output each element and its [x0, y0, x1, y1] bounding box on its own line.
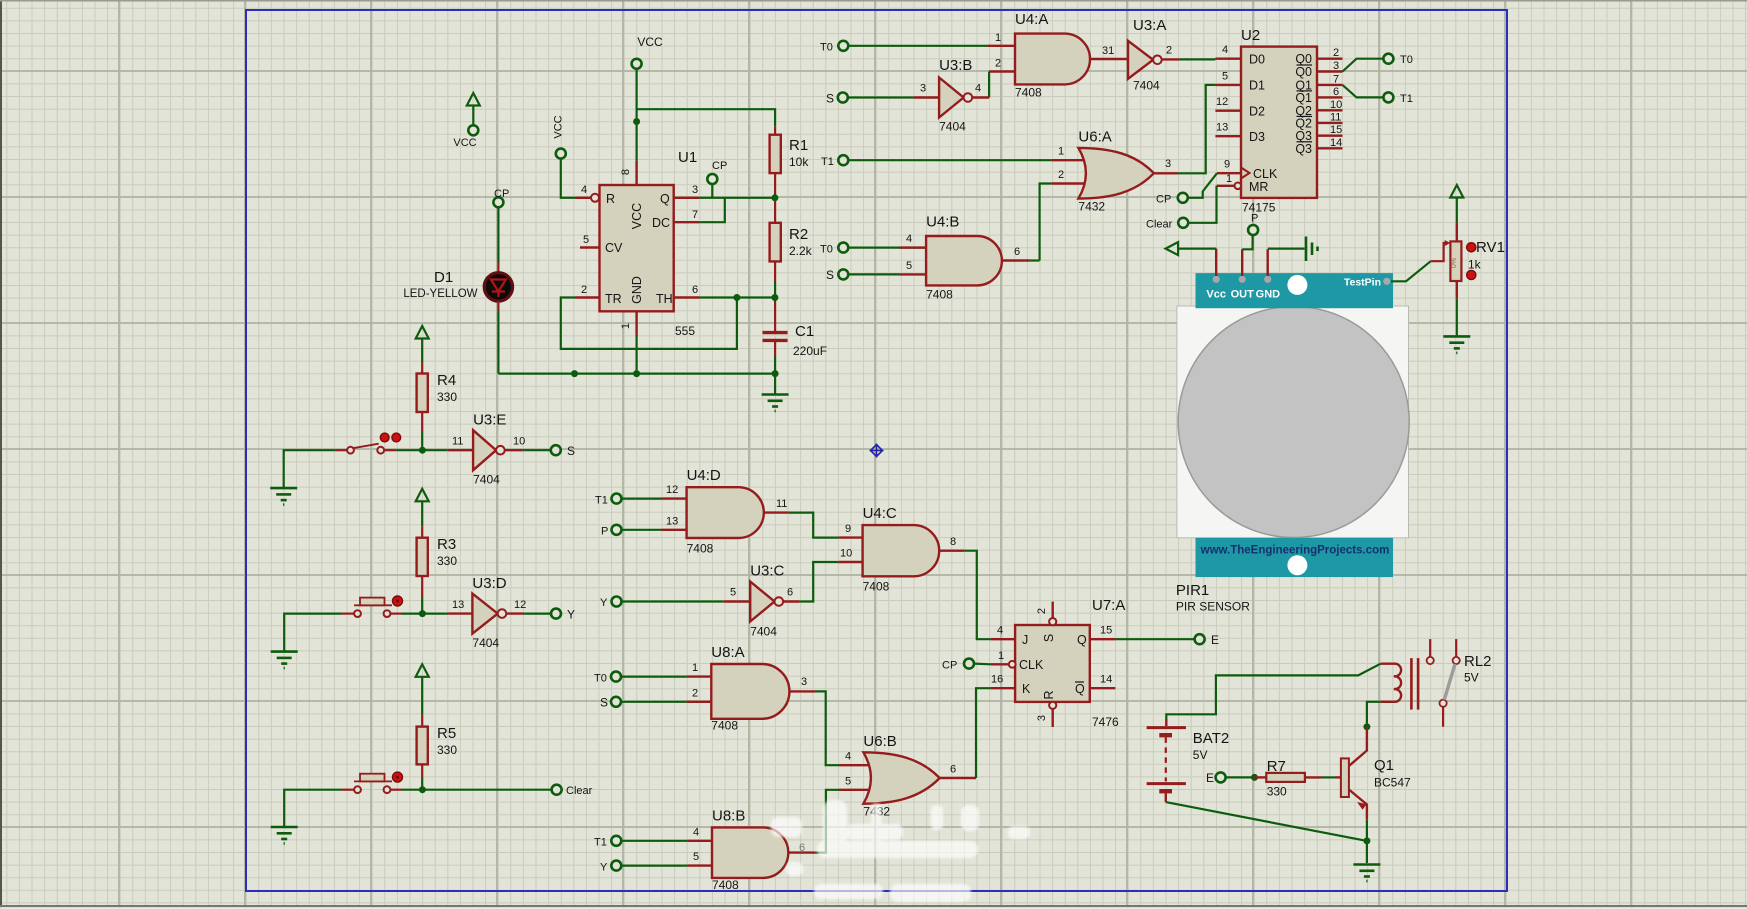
- svg-text:2: 2: [581, 284, 587, 296]
- power symbol VCC above R4: [416, 326, 429, 339]
- svg-text:14: 14: [1100, 674, 1112, 686]
- svg-text:8: 8: [950, 536, 956, 548]
- svg-text:T0: T0: [820, 243, 833, 255]
- pin U2 pin5 D1: [1215, 84, 1241, 86]
- wire row2 gnd to button: [284, 614, 341, 652]
- terminal P (under U2): [1248, 225, 1258, 235]
- pin U7 pin3 R: [1051, 709, 1053, 727]
- schematic sheet border frame: [246, 10, 1507, 891]
- svg-text:VCC: VCC: [553, 115, 565, 138]
- svg-text:VCC: VCC: [453, 137, 476, 149]
- wire C1 bottom lead: [774, 342, 776, 356]
- pin U3:D pin12 stub: [506, 612, 524, 614]
- svg-text:12: 12: [1216, 96, 1228, 108]
- NOT gate U3:C: [750, 563, 784, 639]
- pin U1 pin1: [635, 311, 637, 336]
- svg-text:R2: R2: [789, 226, 808, 243]
- svg-text:S: S: [1042, 634, 1056, 642]
- svg-text:16: 16: [991, 674, 1003, 686]
- svg-text:7408: 7408: [1015, 86, 1042, 100]
- IC U2 74175 quad D flip-flop: [1235, 27, 1318, 215]
- svg-text:U1: U1: [678, 149, 697, 166]
- wire row1 btn to junction: [396, 449, 448, 451]
- svg-text:1: 1: [1058, 146, 1064, 158]
- svg-text:T0: T0: [1400, 54, 1413, 66]
- NOT gate U3:A: [1128, 17, 1166, 93]
- svg-text:1: 1: [995, 32, 1001, 44]
- ground under RV1: [1443, 336, 1470, 353]
- window edge bottom: [0, 905, 1747, 907]
- wire LED bottom lead: [497, 301, 499, 311]
- svg-text:C1: C1: [795, 323, 814, 340]
- wire row3 gnd to button: [284, 790, 341, 827]
- push button switch row3 button: [354, 772, 403, 793]
- svg-text:Y: Y: [567, 608, 575, 622]
- U2 output labels: [1295, 52, 1312, 156]
- push button switch row1 button: [347, 433, 401, 454]
- svg-text:6: 6: [799, 842, 805, 854]
- svg-text:D0: D0: [1249, 53, 1265, 67]
- terminal T1 (to U6:A): [838, 155, 848, 165]
- wire R1 top lead: [774, 126, 776, 134]
- svg-text:13: 13: [452, 599, 464, 611]
- wire Q to R1/R2 junction: [700, 197, 775, 199]
- pin U4:B pin5 stub: [899, 273, 926, 275]
- svg-text:10: 10: [513, 436, 525, 448]
- svg-text:7408: 7408: [687, 542, 714, 556]
- svg-text:T1: T1: [594, 837, 607, 849]
- wire R2 top lead: [774, 201, 776, 223]
- wire GND to right-facing ground: [1268, 248, 1305, 250]
- wire Y to U3:C pin5: [622, 600, 724, 602]
- junction TH/TR loop node: [733, 294, 740, 301]
- wire ground bus: [498, 373, 775, 375]
- svg-text:Q: Q: [1077, 633, 1087, 647]
- svg-text:BAT2: BAT2: [1193, 730, 1229, 747]
- pin U2 pin13 D3: [1215, 135, 1241, 137]
- svg-text:TH: TH: [656, 292, 673, 306]
- svg-text:555: 555: [675, 324, 695, 338]
- svg-text:MR: MR: [1249, 180, 1268, 194]
- resistor R5: [417, 725, 458, 764]
- pin U2 pin12 D2: [1215, 109, 1241, 111]
- svg-text:10: 10: [840, 548, 852, 560]
- wire U3:C out to U4:C pin10: [800, 562, 839, 602]
- pin U7 pin16 K: [991, 687, 1016, 689]
- wire VCC arrow to circle: [472, 106, 474, 126]
- terminal CP (above D1): [493, 197, 503, 207]
- NOT gate U3:E: [473, 412, 506, 487]
- svg-text:Clear: Clear: [1146, 219, 1173, 231]
- pin U8:B pin4 stub: [687, 840, 712, 842]
- svg-text:U3:E: U3:E: [473, 412, 506, 429]
- pin U2 pin10: [1317, 109, 1343, 111]
- pin U4:D pin12 stub: [662, 497, 687, 499]
- wire R7 to Q1 base: [1321, 776, 1336, 778]
- power symbol VCC arrow top-left: [467, 93, 480, 106]
- pin U1 pin6 stub: [674, 296, 700, 298]
- svg-text:R7: R7: [1267, 758, 1286, 775]
- pin U3:E pin10 stub: [505, 449, 523, 451]
- svg-text:PIR SENSOR: PIR SENSOR: [1176, 600, 1250, 614]
- wire CP to LED: [497, 207, 499, 262]
- svg-text:8: 8: [620, 169, 632, 175]
- pin U4:D pin11 out: [764, 511, 789, 513]
- svg-text:S: S: [600, 696, 608, 710]
- wire Y to U8:B pin5: [621, 864, 687, 866]
- wire T1 to U6:A pin1: [848, 159, 1051, 161]
- wire R4 bottom lead: [421, 412, 423, 432]
- terminal Y (U8:B): [611, 861, 621, 871]
- power symbol VCC above RV1: [1450, 185, 1463, 198]
- svg-text:E: E: [1206, 771, 1214, 785]
- svg-text:P: P: [1251, 213, 1258, 225]
- pin U6:A pin3 out: [1154, 172, 1178, 174]
- terminal Clear (row3): [552, 785, 562, 795]
- ground row1 left: [270, 488, 297, 505]
- NOT gate U3:B: [939, 57, 972, 134]
- wire coil bottom to Q1 collector: [1367, 702, 1381, 724]
- svg-text:14: 14: [1330, 137, 1342, 149]
- svg-text:2: 2: [1333, 47, 1339, 59]
- svg-text:TR: TR: [605, 292, 622, 306]
- svg-text:U6:A: U6:A: [1078, 129, 1111, 146]
- svg-text:4: 4: [845, 751, 851, 763]
- svg-text:3: 3: [1333, 60, 1339, 72]
- junction E/R7 node: [1251, 774, 1258, 781]
- wire S to U3:B pin3: [848, 96, 914, 98]
- junction bus dot c: [772, 370, 779, 377]
- wire R3 bottom green: [421, 598, 423, 614]
- svg-text:1: 1: [998, 650, 1004, 662]
- svg-text:BC547: BC547: [1374, 776, 1411, 790]
- svg-text:2: 2: [995, 58, 1001, 70]
- wire U4:B out to U6:A pin2: [1040, 184, 1052, 261]
- pin U8:A pin3 out: [789, 690, 815, 692]
- svg-text:6: 6: [1333, 86, 1339, 98]
- svg-text:T1: T1: [821, 156, 834, 168]
- svg-text:CV: CV: [605, 241, 623, 255]
- pin U4:A pin3 out: [1090, 58, 1129, 60]
- wire row3 btn lead R: [391, 789, 403, 791]
- wire R3 top lead: [421, 526, 423, 538]
- pin U8:B pin6 out: [788, 851, 815, 853]
- power arrow left (PIR Vcc): [1166, 242, 1217, 255]
- svg-text:7476: 7476: [1092, 715, 1119, 729]
- pin U7 pin14 Qbar: [1090, 687, 1116, 689]
- pin U3:C pin5 stub: [724, 600, 750, 602]
- wire VCC reset to pin4: [561, 159, 576, 198]
- svg-text:7404: 7404: [472, 636, 499, 650]
- svg-text:7404: 7404: [1133, 79, 1160, 93]
- svg-text:10: 10: [1330, 99, 1342, 111]
- NOT gate U3:D: [472, 575, 506, 650]
- pin U4:A pin2 stub: [989, 70, 1015, 72]
- wire T1 to U4:D pin12: [622, 498, 662, 500]
- junction collector node: [1363, 723, 1370, 730]
- terminal T1 (U2 out): [1383, 92, 1393, 102]
- svg-text:U4:D: U4:D: [687, 467, 721, 484]
- junction R3/button node: [419, 610, 426, 617]
- svg-text:R: R: [1042, 690, 1056, 699]
- terminal T0 (to U4:A): [838, 41, 848, 51]
- resistor R2: [770, 223, 813, 262]
- svg-text:3: 3: [692, 184, 698, 196]
- svg-text:R4: R4: [437, 372, 456, 389]
- junction bus dot a: [571, 370, 578, 377]
- pin U2 pin9 CLK: [1217, 172, 1241, 174]
- terminal T1 (U4:D): [612, 494, 622, 504]
- svg-text:7408: 7408: [926, 288, 953, 302]
- svg-text:VCC: VCC: [630, 203, 644, 229]
- svg-text:4: 4: [581, 184, 587, 196]
- pin U2 pin4 D0: [1215, 58, 1241, 60]
- svg-text:Clear: Clear: [566, 785, 593, 797]
- svg-text:DC: DC: [652, 216, 670, 230]
- svg-text:74175: 74175: [1242, 201, 1276, 215]
- pin U8:B pin5 stub: [687, 864, 712, 866]
- svg-text:2: 2: [692, 687, 698, 699]
- wire U3:E out to S: [523, 449, 551, 451]
- svg-text:K: K: [1022, 682, 1031, 696]
- pin U2 pin11: [1317, 122, 1343, 124]
- terminal T1 (U8:B): [611, 836, 621, 846]
- junction R4/button node: [419, 447, 426, 454]
- terminal E (base drive): [1216, 772, 1226, 782]
- svg-text:3: 3: [1036, 715, 1048, 721]
- AND gate U4:C: [863, 505, 940, 594]
- svg-text:7: 7: [692, 209, 698, 221]
- ground under C1: [762, 395, 789, 412]
- svg-text:J: J: [1022, 633, 1028, 647]
- wire row1 btn lead L: [335, 449, 347, 451]
- wire LED top lead: [497, 262, 499, 272]
- pin U1 pin4 stub: [576, 197, 591, 199]
- wire T1 to U8:B pin4: [621, 840, 687, 842]
- svg-text:VCC: VCC: [637, 35, 663, 49]
- svg-text:6: 6: [1014, 246, 1020, 258]
- PIR sensor module PIR1: [1176, 273, 1409, 613]
- svg-text:2: 2: [1166, 45, 1172, 57]
- wire row3 to Clear: [402, 789, 552, 791]
- svg-text:330: 330: [437, 743, 457, 757]
- svg-text:D1: D1: [1249, 79, 1265, 93]
- pin U3:E pin11 stub: [448, 449, 473, 451]
- wire VCC branch to R1 top: [637, 109, 776, 126]
- svg-text:4: 4: [906, 233, 912, 245]
- wire RV1 top lead: [1456, 223, 1458, 242]
- IC U1 555 timer: [600, 149, 698, 338]
- pin U7 pin2 S: [1051, 602, 1053, 618]
- svg-text:Y: Y: [600, 597, 608, 609]
- wire R5 bottom lead: [421, 764, 423, 778]
- pin U3:B pin4 out: [972, 96, 989, 98]
- wire R3 bottom lead: [421, 576, 423, 598]
- svg-text:E: E: [1211, 633, 1219, 647]
- pin U4:B pin4 stub: [899, 246, 926, 248]
- svg-text:12: 12: [666, 484, 678, 496]
- wire row3 btn lead L: [341, 789, 354, 791]
- wire T0 to U4:A pin1: [848, 45, 988, 47]
- wire T0 to U8:A pin1: [621, 675, 687, 677]
- svg-text:330: 330: [437, 554, 457, 568]
- svg-text:0%: 0%: [1451, 258, 1458, 268]
- AND gate U8:B: [712, 808, 788, 893]
- svg-text:Q: Q: [1075, 682, 1085, 696]
- svg-text:11: 11: [452, 436, 463, 448]
- svg-text:3: 3: [920, 83, 926, 95]
- pin U3:A pin2 out: [1162, 58, 1180, 60]
- IC U7:A 7476 JK flip-flop: [1009, 597, 1126, 729]
- wire R2 bottom lead: [774, 261, 776, 281]
- svg-text:9: 9: [1224, 159, 1230, 171]
- wire R3 top green: [421, 501, 423, 526]
- wire CP to CLK: [1188, 173, 1217, 198]
- pin U2 pin7: [1317, 84, 1343, 86]
- terminal T0 (U8:A): [611, 672, 621, 682]
- pin U7 pin4 J: [991, 638, 1016, 640]
- svg-text:U3:C: U3:C: [750, 563, 784, 580]
- transistor Q1 BC547: [1336, 727, 1411, 820]
- svg-text:RL2: RL2: [1464, 653, 1492, 670]
- terminal Clear (U2): [1178, 218, 1188, 228]
- svg-text:TestPin: TestPin: [1344, 277, 1381, 289]
- wire C1 top green: [774, 298, 776, 303]
- svg-text:1: 1: [1226, 173, 1232, 185]
- svg-text:LED-YELLOW: LED-YELLOW: [403, 288, 477, 300]
- svg-text:D3: D3: [1249, 130, 1265, 144]
- svg-text:3: 3: [801, 676, 807, 688]
- pin U6:A pin1 stub: [1052, 159, 1092, 161]
- pin U8:A pin2 stub: [687, 701, 712, 703]
- svg-text:5: 5: [693, 851, 699, 863]
- svg-text:31: 31: [1102, 45, 1114, 57]
- wire T0 to U4:B pin4: [848, 247, 926, 249]
- wire U4:D out to U4:C pin9: [789, 513, 839, 538]
- AND gate U8:A: [711, 644, 789, 733]
- svg-text:5V: 5V: [1464, 671, 1479, 685]
- svg-text:7408: 7408: [711, 719, 738, 733]
- svg-text:5: 5: [1222, 71, 1228, 83]
- svg-text:6: 6: [950, 764, 956, 776]
- terminal VCC top-left: [468, 125, 478, 135]
- svg-text:6: 6: [692, 284, 698, 296]
- pin U1 pin8: [635, 161, 637, 185]
- svg-text:D1: D1: [434, 269, 453, 286]
- wire E to R7: [1226, 776, 1255, 778]
- svg-text:CP: CP: [1156, 194, 1171, 206]
- wire Q1 emitter to ground: [1366, 820, 1368, 863]
- svg-text:T1: T1: [1400, 93, 1413, 105]
- wire LED to bus: [497, 311, 499, 374]
- pin U2 pin15: [1317, 134, 1343, 136]
- svg-text:5: 5: [583, 234, 589, 246]
- svg-text:330: 330: [1267, 785, 1287, 799]
- wire R4 top green: [421, 339, 423, 363]
- wire R4 top lead: [421, 363, 423, 374]
- pin U3:D pin13 stub: [448, 612, 472, 614]
- wire RV1 bottom green: [1456, 299, 1458, 337]
- wire row1 gnd to button: [284, 450, 335, 488]
- svg-text:T0: T0: [594, 672, 607, 684]
- svg-text:U4:A: U4:A: [1015, 11, 1048, 28]
- LED D1: [403, 269, 512, 301]
- svg-text:U7:A: U7:A: [1092, 597, 1125, 614]
- svg-text:U4:B: U4:B: [926, 214, 959, 231]
- wire RV1 top green: [1456, 198, 1458, 223]
- wire TR feedback loop: [561, 298, 737, 349]
- svg-text:11: 11: [776, 498, 787, 510]
- svg-text:Q: Q: [660, 192, 670, 206]
- wire U7 Q to E: [1115, 638, 1194, 640]
- wire pin1 to gnd bus: [635, 336, 637, 374]
- resistor R3: [417, 536, 458, 576]
- svg-text:GND: GND: [630, 276, 644, 304]
- svg-text:U3:A: U3:A: [1133, 17, 1166, 34]
- ground row2 left: [271, 652, 298, 669]
- wire BAT2- to emitter node: [1166, 802, 1367, 841]
- svg-text:T0: T0: [820, 42, 833, 54]
- wire S to U8:A pin2: [621, 701, 687, 703]
- svg-text:4: 4: [693, 826, 699, 838]
- junction VCC branch: [633, 118, 640, 125]
- wire CP to U7 CLK: [974, 662, 991, 665]
- svg-text:R: R: [606, 192, 615, 206]
- svg-text:CLK: CLK: [1019, 658, 1044, 672]
- svg-text:U8:B: U8:B: [712, 808, 745, 825]
- svg-text:R5: R5: [437, 725, 456, 742]
- pin U6:B pin5 stub: [839, 789, 877, 791]
- terminal VCC U1 reset: [556, 149, 566, 159]
- wire PIR Vcc lead: [1215, 249, 1217, 276]
- svg-text:3: 3: [1165, 158, 1171, 170]
- svg-text:9: 9: [845, 523, 851, 535]
- svg-text:U8:A: U8:A: [711, 644, 744, 661]
- wire U6:B out to U7 K: [976, 688, 991, 778]
- svg-text:CP: CP: [942, 660, 957, 672]
- wire R4 bottom green: [421, 432, 423, 450]
- svg-text:11: 11: [1330, 111, 1341, 123]
- wire DC to Q net: [700, 198, 725, 222]
- pin U7 pin15 Q: [1090, 638, 1116, 640]
- svg-text:T1: T1: [595, 494, 608, 506]
- pin U6:A pin2 stub: [1052, 182, 1092, 184]
- svg-text:U2: U2: [1241, 27, 1260, 44]
- wire U8:A out to U6:B pin4: [815, 691, 839, 765]
- wire Q0b to T0: [1343, 59, 1384, 72]
- wire R5 top lead: [421, 715, 423, 727]
- svg-text:CP: CP: [494, 188, 509, 200]
- ground (right-facing) near PIR: [1306, 237, 1318, 262]
- svg-text:220uF: 220uF: [793, 344, 827, 358]
- wire U8:B out to U6:B pin5: [815, 790, 839, 853]
- svg-text:7408: 7408: [863, 580, 890, 594]
- svg-text:5: 5: [845, 775, 851, 787]
- svg-text:1k: 1k: [1468, 258, 1482, 272]
- pin U2 pin2: [1317, 58, 1343, 60]
- pin U1 pin5 stub: [580, 246, 600, 248]
- svg-text:Q3: Q3: [1295, 142, 1312, 156]
- terminal S (row1): [551, 445, 561, 455]
- resistor R4: [417, 372, 458, 412]
- terminal VCC U1 net: [632, 59, 642, 69]
- relay RL2 contacts: [1427, 639, 1460, 727]
- svg-text:12: 12: [514, 599, 526, 611]
- pin U1 pin2 stub: [576, 296, 600, 298]
- svg-text:15: 15: [1330, 124, 1342, 136]
- svg-text:4: 4: [997, 625, 1003, 637]
- junction TH/R2/C1 node: [771, 294, 778, 301]
